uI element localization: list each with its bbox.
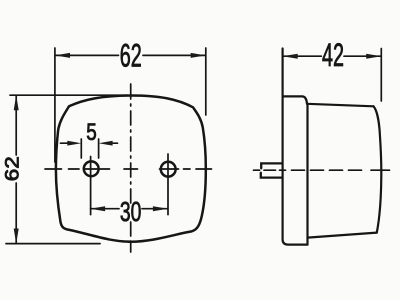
dimension 62 vertical: extension line bottom [6,243,100,245]
side view: flange top edge and step [283,96,307,103]
dimension 62 horizontal: extension line right [205,48,207,115]
dimension 62 horizontal: dimension line + arrows [55,53,206,58]
mounting hole left circle [84,161,99,176]
mounting hole right circle [161,162,176,177]
dimension 62 vertical: dimension line + arrows [14,95,19,243]
side view: horizontal dash-dot centerline [254,169,390,171]
svg-text:5: 5 [86,119,97,146]
dimension 62 horizontal: extension line left [54,48,56,162]
side view: flange left edge with 42 extension [283,49,308,245]
dimension 5: extension line right [98,139,100,158]
mounting hole right vertical centerline [167,154,169,215]
dimension 42: dimension line + arrows [283,54,382,59]
dimension 5: extension line left [80,139,82,158]
svg-text:62: 62 [3,156,24,181]
dimension 5: arrows outside [61,141,118,146]
side view: connector plug [261,163,282,177]
side view: inner vertical line (flange/body joint) [306,104,308,245]
svg-text:62: 62 [120,38,142,74]
mounting hole left vertical centerline [90,157,92,215]
front view lamp body outline [56,96,206,242]
svg-text:42: 42 [322,37,344,73]
dimension 30: dimension line + arrows [90,206,168,211]
svg-text:30: 30 [120,196,142,227]
front view vertical dash-dot centerline [130,84,132,252]
front view horizontal dashed centerline [45,168,212,170]
side view: body top edge [307,104,374,107]
dimension 62 vertical: extension line top [10,94,128,96]
side view: lens right edge [374,106,382,232]
side view: body bottom edge [308,233,377,238]
dimension 42: extension line right [380,49,382,102]
